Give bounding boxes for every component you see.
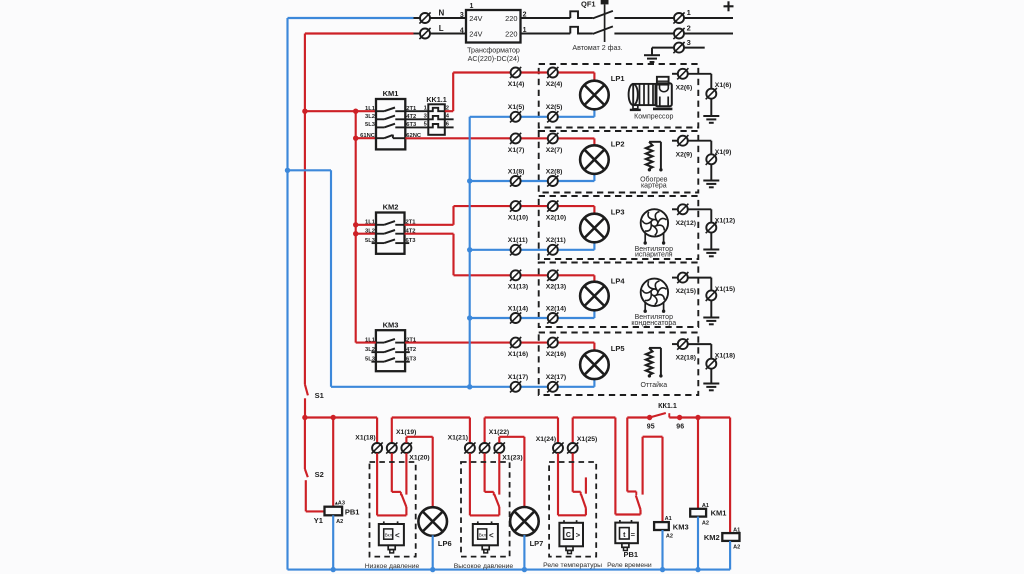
terminal X1(17) — [510, 381, 521, 392]
svg-text:S1: S1 — [315, 391, 324, 400]
KK1.1 element 1-2 — [428, 108, 445, 111]
svg-text:220: 220 — [505, 14, 517, 23]
junction blue branch — [285, 168, 290, 173]
red bus segment1 — [305, 416, 377, 418]
svg-text:X1(17): X1(17) — [508, 374, 528, 381]
icon fan evaporator — [641, 209, 668, 245]
blue mid bus vertical — [469, 117, 471, 387]
label KM2 A2 — [733, 545, 740, 551]
junction red KM2 1L1 — [353, 222, 358, 227]
svg-text:KM2: KM2 — [704, 533, 720, 542]
terminal X1(21) — [464, 442, 475, 453]
dashed load box 5 — [539, 333, 699, 396]
svg-text:KM3: KM3 — [673, 522, 689, 531]
icon temperature relay — [559, 520, 583, 553]
label pin 1 right — [523, 27, 527, 34]
svg-text:3: 3 — [460, 12, 464, 19]
KM3 4T2 stub right — [405, 351, 410, 353]
wire red KM1 62NC to row2 — [405, 137, 594, 139]
transformer T1 box — [466, 10, 521, 43]
red bus segment2 — [392, 416, 470, 418]
svg-text:=: = — [631, 530, 636, 539]
ground row3 — [703, 250, 719, 257]
red vertical from L to S1 — [304, 34, 306, 385]
label Y1 — [314, 516, 323, 525]
terminal X2(18) — [677, 339, 688, 350]
label X1(18) — [715, 352, 735, 359]
terminal X1(16) — [510, 337, 521, 348]
label pin1 — [424, 106, 428, 112]
dashed load box 1 — [539, 64, 699, 128]
junction blue LP6 — [430, 567, 435, 572]
svg-text:X2(9): X2(9) — [676, 151, 693, 158]
label X2(4) — [546, 81, 563, 88]
label 4T2 — [406, 114, 416, 120]
ground row4 — [703, 318, 719, 325]
lamp LP1 — [580, 81, 609, 110]
svg-text:Высокое давление: Высокое давление — [454, 563, 514, 570]
caption row3 line1 — [635, 246, 673, 253]
wire X2(12) to X1(12) — [688, 209, 711, 249]
terminal X1(15) — [706, 290, 717, 301]
terminal X2(8) — [547, 175, 558, 186]
label X2(17) — [546, 374, 566, 381]
wire LP6 blue — [432, 535, 434, 569]
svg-text:KM1: KM1 — [711, 509, 727, 518]
KM1 contact 5L3-6T3 — [376, 124, 405, 128]
caption temperature relay — [543, 562, 602, 569]
svg-text:24V: 24V — [469, 14, 482, 23]
label X1(23) — [502, 455, 522, 462]
svg-text:Компрессор: Компрессор — [634, 114, 673, 121]
svg-text:X2(18): X2(18) — [676, 355, 696, 362]
label X1(6) — [715, 82, 732, 89]
svg-text:Реле температуры: Реле температуры — [543, 562, 602, 569]
svg-text:>: > — [576, 530, 581, 539]
terminal X2(4) — [547, 67, 558, 78]
lamp LP5 — [580, 351, 609, 380]
svg-text:конденсатора: конденсатора — [631, 320, 676, 327]
wire blue row1 — [470, 109, 595, 117]
red KM bus vertical — [355, 111, 357, 342]
wire KM1 6T3 to KK1.1 pin5 — [405, 126, 428, 128]
label LP5 — [611, 344, 625, 353]
wire KM1 A2 blue — [697, 517, 699, 570]
svg-text:X2(7): X2(7) — [546, 147, 563, 154]
label N — [439, 8, 445, 17]
wire red row3 lamp drop — [593, 206, 595, 214]
KM3 6T3 stub right — [405, 361, 410, 363]
svg-text:N: N — [439, 8, 445, 17]
svg-text:LP3: LP3 — [611, 207, 625, 216]
wire X2(15) stub — [672, 277, 678, 279]
wire PB1 A3 drop — [332, 418, 334, 507]
junction S1 bus — [302, 415, 307, 420]
wire KM1 4T2 to KK1.1 pin3 — [405, 118, 428, 120]
svg-text:Оттайка: Оттайка — [640, 381, 667, 389]
svg-text:LP2: LP2 — [611, 140, 625, 149]
wire red KM2 3L2 — [356, 233, 376, 235]
label LP4 — [611, 277, 626, 286]
svg-text:1L1: 1L1 — [365, 337, 376, 343]
KM3 contact 5L3-6T3 — [376, 358, 405, 362]
terminal N — [419, 12, 430, 23]
label 220 upper — [505, 14, 517, 23]
red bus segment6 — [669, 416, 730, 418]
label 96 — [676, 423, 684, 430]
KM1 contact 61NC-62NC — [376, 135, 405, 139]
terminal 3 — [673, 42, 684, 53]
label X2(18) — [676, 355, 696, 362]
svg-text:A2: A2 — [666, 533, 673, 539]
KM3 5L3 stub left — [371, 361, 376, 363]
label LP2 — [611, 140, 625, 149]
wire blue branch vertical — [330, 170, 332, 386]
svg-text:LP6: LP6 — [438, 539, 452, 548]
terminal X1(9) — [706, 154, 717, 165]
wire X2(9) stub — [672, 140, 678, 142]
dashed load box 2 — [539, 131, 699, 193]
lamp LP6 — [418, 507, 447, 536]
label 2 — [687, 24, 691, 33]
svg-text:61NC: 61NC — [360, 133, 376, 139]
svg-text:LP4: LP4 — [611, 277, 626, 286]
svg-text:A2: A2 — [702, 520, 709, 526]
lamp LP4 — [580, 282, 609, 311]
red bus segment3 — [485, 416, 558, 418]
caption row2 line2 — [641, 182, 667, 189]
label KM2 4T2 — [406, 228, 416, 234]
label X2(15) — [676, 288, 696, 295]
icon heater crankcase — [646, 142, 663, 172]
label KM2 1L1 — [365, 220, 376, 226]
junction blue KM3 — [660, 567, 665, 572]
label X1(14) — [508, 305, 528, 312]
label QF1 — [581, 0, 596, 8]
svg-text:220: 220 — [505, 29, 517, 38]
label 24V upper — [469, 14, 482, 23]
terminal X1(19) — [386, 442, 397, 453]
terminal X1(23) — [494, 442, 505, 453]
KM2 5L3 stub — [372, 242, 376, 244]
terminal X1(18) bottom — [372, 442, 383, 453]
KM3 contact 3L2-4T2 — [376, 348, 405, 352]
wire X2(18) to X1(18) — [688, 344, 711, 383]
relay coil PB1 — [325, 507, 343, 516]
wire X2(6) stub — [672, 73, 678, 75]
lamp LP7 — [510, 507, 539, 536]
red bus segment4 — [573, 416, 616, 418]
terminal 2 — [673, 28, 684, 39]
label X2(14) — [546, 305, 566, 312]
wire N (blue) from left bus to terminal N — [288, 17, 420, 19]
KM2 contact 5L3-6T3 — [376, 239, 405, 243]
svg-text:испарителя: испарителя — [635, 252, 673, 259]
caption time relay — [607, 562, 652, 569]
label pin2 — [446, 106, 449, 112]
caption row2 line1 — [640, 176, 668, 184]
junction red 61NC — [353, 136, 358, 141]
svg-text:X2(5): X2(5) — [546, 104, 563, 111]
label X1(15) — [715, 286, 735, 293]
svg-text:A1: A1 — [665, 516, 672, 522]
wire red KM2 1L1 — [356, 224, 376, 226]
wire red KK1.1 pin2 riser to row1 — [445, 73, 595, 112]
svg-text:L: L — [439, 24, 444, 33]
svg-text:KK1.1: KK1.1 — [426, 95, 446, 104]
caption low pressure — [365, 563, 420, 570]
svg-text:PB1: PB1 — [345, 507, 360, 516]
junction blue KM1 — [695, 567, 700, 572]
switch S1 — [305, 384, 308, 417]
svg-text:X1(14): X1(14) — [508, 305, 528, 312]
svg-text:PB1: PB1 — [624, 550, 639, 559]
svg-text:Трансформатор: Трансформатор — [467, 47, 520, 55]
label 2T1 — [406, 106, 417, 112]
contactor KM3 box — [376, 330, 405, 371]
KM2 contact 3L2-4T2 — [376, 230, 405, 234]
label LP7 — [530, 539, 544, 548]
wire KM1 coil drop — [697, 418, 699, 509]
junction KM1 coil feed — [695, 415, 700, 420]
svg-text:X1(4): X1(4) — [508, 81, 525, 88]
dashed box high pressure — [461, 462, 510, 557]
terminal X2(10) — [547, 201, 558, 212]
terminal X1(5) — [510, 111, 521, 122]
label AC220-DC24 — [468, 55, 520, 63]
svg-text:C: C — [566, 532, 571, 539]
caption row1 line1 — [634, 114, 673, 121]
junction red KM bus — [353, 109, 358, 114]
ground row1 — [703, 116, 719, 123]
svg-text:X2(6): X2(6) — [676, 84, 693, 91]
label KM3 A2 — [666, 533, 673, 539]
temperature relay contact — [558, 453, 586, 515]
wire terminal N to transformer pin 3 — [430, 17, 466, 19]
svg-text:2: 2 — [687, 24, 691, 33]
label KM2 3L2 — [365, 228, 375, 234]
label KK1.1 bottom — [658, 401, 677, 410]
wire LP7 blue — [523, 535, 525, 570]
wire red row2 lamp drop — [593, 138, 595, 145]
junction 95 — [647, 415, 652, 420]
svg-text:QF1: QF1 — [581, 0, 596, 8]
svg-text:Автомат 2 фаз.: Автомат 2 фаз. — [572, 44, 622, 52]
svg-text:X2(12): X2(12) — [676, 220, 696, 227]
label X2(10) — [546, 215, 566, 222]
terminal X2(6) — [677, 68, 688, 79]
terminal X2(7) — [547, 133, 558, 144]
label X1(9) — [715, 149, 732, 156]
svg-text:X1(25): X1(25) — [577, 436, 597, 443]
icon heater defrost — [646, 348, 663, 378]
svg-text:X1(16): X1(16) — [508, 351, 528, 358]
svg-text:LP1: LP1 — [611, 74, 625, 83]
svg-text:24V: 24V — [469, 29, 482, 38]
KK1.1 element 3-4 — [428, 116, 445, 119]
svg-text:X1(15): X1(15) — [715, 286, 735, 293]
svg-text:S2: S2 — [315, 470, 324, 479]
label X1(19) — [396, 429, 416, 436]
svg-text:A1: A1 — [702, 503, 709, 509]
wire red row4 lamp drop — [593, 275, 595, 281]
dashed load box 4 — [539, 263, 699, 328]
svg-text:X1(18): X1(18) — [355, 435, 375, 442]
svg-text:5L3: 5L3 — [365, 238, 376, 244]
wire X2(18) stub — [672, 343, 678, 345]
svg-text:X2(4): X2(4) — [546, 81, 563, 88]
label KM2 — [383, 203, 399, 212]
svg-text:1: 1 — [470, 3, 474, 10]
svg-text:картера: картера — [641, 182, 667, 189]
lamp LP2 — [580, 145, 609, 174]
junction blue PB1 — [331, 567, 336, 572]
label X2(7) — [546, 147, 563, 154]
caption row4 line1 — [635, 314, 673, 321]
wire X2(6) to X1(6) — [688, 74, 711, 116]
wire KM2 coil drop — [729, 418, 731, 534]
junction blue row3 — [467, 247, 472, 252]
svg-text:X2(14): X2(14) — [546, 305, 566, 312]
terminal X2(15) — [677, 272, 688, 283]
svg-text:5L3: 5L3 — [365, 122, 376, 128]
label X1(24) — [536, 436, 556, 443]
wire after terminal3 — [684, 47, 705, 49]
svg-text:KM2: KM2 — [383, 203, 399, 212]
icon pressure switch high — [473, 521, 498, 552]
svg-text:Y1: Y1 — [314, 516, 323, 525]
label X1(20) — [409, 455, 429, 462]
lamp LP3 — [580, 214, 609, 243]
svg-text:X1(11): X1(11) — [508, 237, 528, 244]
svg-text:KM3: KM3 — [383, 320, 399, 329]
svg-text:X1(12): X1(12) — [715, 218, 735, 225]
junction blue row2 — [467, 178, 472, 183]
left blue bus vertical — [286, 18, 288, 570]
wire blue row4 — [470, 310, 595, 318]
svg-text:<: < — [395, 531, 400, 540]
svg-text:Низкое давление: Низкое давление — [365, 563, 420, 570]
wire PB1 A2 blue — [332, 515, 334, 569]
KK1.1 element 5-6 — [428, 124, 445, 127]
label KM3 2T1 — [406, 337, 417, 343]
label KM3 6T3 — [406, 356, 417, 362]
terminal X1(24) — [552, 442, 563, 453]
label KM3 A1 — [665, 516, 672, 522]
label LP6 — [438, 539, 452, 548]
label pin 2 right — [523, 12, 527, 19]
label KM2 A1 — [733, 527, 740, 533]
wire KM3 A2 blue — [661, 530, 663, 570]
svg-text:4: 4 — [460, 28, 464, 35]
wire transformer pin1 to QF1 pole2 — [521, 33, 571, 35]
label X2(13) — [546, 284, 566, 291]
junction PB1 A3 — [331, 415, 336, 420]
label X1(7) — [508, 147, 525, 154]
wire red KM3 1L1 — [356, 342, 376, 344]
KM2 contact 1L1-2T1 — [376, 221, 405, 225]
label 62NC — [406, 133, 422, 139]
label X2(5) — [546, 104, 563, 111]
label KM2 6T3 — [406, 238, 417, 244]
wire blue branch horizontal — [288, 169, 332, 171]
label KM1 — [383, 89, 399, 98]
terminal X2(13) — [547, 270, 558, 281]
label KM3 1L1 — [365, 337, 376, 343]
label X1(25) — [577, 436, 597, 443]
label LP1 — [611, 74, 625, 83]
red bus segment5 — [627, 416, 649, 418]
svg-text:LP5: LP5 — [611, 344, 625, 353]
label KM3 4T2 — [406, 347, 416, 353]
junction blue row4 — [467, 315, 472, 320]
svg-text:95: 95 — [647, 423, 655, 430]
label Avtomat 2 faz — [572, 44, 622, 52]
plus sign — [724, 1, 734, 11]
svg-text:96: 96 — [676, 423, 684, 430]
label X1(13) — [508, 284, 528, 291]
junction blue row5 — [467, 384, 472, 389]
terminal L — [419, 28, 430, 39]
label X2(16) — [546, 351, 566, 358]
label X1(17) — [508, 374, 528, 381]
label X1(8) — [508, 168, 525, 175]
svg-text:X2(15): X2(15) — [676, 288, 696, 295]
svg-text:X1(13): X1(13) — [508, 284, 528, 291]
svg-text:X1(24): X1(24) — [536, 436, 556, 443]
KK1.1 9596 blade — [650, 413, 670, 418]
wire X1(21) drop — [469, 418, 471, 443]
KK1.1 pin4 stub — [445, 118, 454, 120]
ground top — [644, 55, 660, 62]
svg-text:3L2: 3L2 — [365, 228, 375, 234]
svg-text:1L1: 1L1 — [365, 106, 376, 112]
label KM3 5L3 — [365, 356, 376, 362]
junction blue LP7 — [522, 567, 527, 572]
wire after terminal2 — [684, 33, 733, 35]
svg-text:X2(10): X2(10) — [546, 215, 566, 222]
caption row3 line2 — [635, 252, 673, 259]
wire red row1 lamp drop — [593, 73, 595, 81]
svg-text:Вкл: Вкл — [385, 533, 393, 538]
wire red to KM1 1L1 — [305, 110, 376, 112]
label X1(4) — [508, 81, 525, 88]
label X1(11) — [508, 237, 528, 244]
icon time relay — [615, 520, 638, 551]
terminal X2(14) — [547, 312, 558, 323]
label PB1 icon — [624, 550, 639, 559]
terminal X1(7) — [510, 133, 521, 144]
label 3L2 — [365, 114, 375, 120]
time relay NO contact to KM3 — [643, 437, 663, 522]
svg-text:X1(8): X1(8) — [508, 168, 525, 175]
svg-text:КК1.1: КК1.1 — [658, 401, 677, 410]
wire blue row2 — [470, 174, 595, 181]
terminal X1(25) — [567, 442, 578, 453]
dashed box temperature relay — [549, 462, 596, 557]
label 3 — [687, 38, 691, 47]
label 95 — [647, 423, 655, 430]
label 24V lower — [469, 29, 482, 38]
terminal X1(14) — [510, 312, 521, 323]
label KM1 A1 — [702, 503, 709, 509]
terminal X1(13) — [510, 270, 521, 281]
svg-text:X2(11): X2(11) — [546, 237, 566, 244]
label pin6 — [446, 122, 450, 128]
KM3 3L2 stub left — [371, 351, 376, 353]
label 220 lower — [505, 29, 517, 38]
label X1(16) — [508, 351, 528, 358]
